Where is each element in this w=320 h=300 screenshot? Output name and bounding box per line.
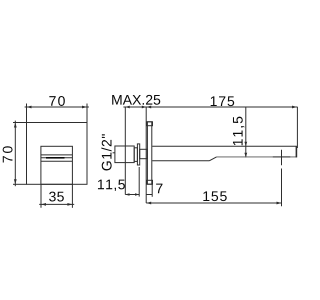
label MAX.25 — [112, 95, 160, 105]
dim 11,5 bottom washer extension — [138, 167, 140, 197]
label 155 — [203, 191, 226, 201]
aerator extension line — [281, 169, 283, 207]
dim 35 arrows — [41, 203, 72, 206]
dim 11,5 bottom dimension line — [125, 194, 139, 196]
dim 155 dimension line — [146, 202, 281, 204]
spout tube bottom step diagonal — [210, 157, 217, 161]
dim 70 top arrows — [27, 106, 88, 109]
label 7 — [156, 184, 162, 194]
front spout body — [41, 146, 73, 184]
dim 11,5 right arrows — [244, 142, 247, 158]
spout tip face — [295, 146, 297, 157]
label 11,5 right — [233, 117, 244, 146]
dim 70 left arrows — [14, 123, 17, 185]
nut collar — [134, 148, 137, 162]
spout slot dark opening — [46, 157, 65, 159]
flange top cap — [147, 122, 153, 126]
spout tube bottom line near wall — [152, 160, 209, 162]
flange bar — [147, 122, 151, 184]
dim 35 extension lines — [40, 184, 42, 208]
spout slot middle line — [41, 157, 72, 159]
label 175 — [211, 96, 235, 106]
spout slot top line — [41, 154, 72, 156]
aerator centerline cross vertical — [281, 150, 283, 166]
backnut washer — [137, 144, 139, 165]
dim 11,5 right dimension line — [245, 107, 247, 157]
dim 155 arrows — [146, 202, 281, 205]
G1/2 leader stub — [113, 152, 115, 154]
dim 175 right extension line — [296, 107, 298, 148]
dim 11,5 bottom arrows — [125, 193, 139, 196]
union nut — [115, 146, 134, 163]
spout tube top line — [152, 145, 297, 147]
label 11,5 bottom — [98, 180, 125, 191]
dim 70 left dimension line — [14, 121, 16, 187]
wall front line — [145, 107, 147, 203]
wall back line — [124, 107, 126, 195]
label G1/2" — [101, 134, 111, 170]
dim 35 dimension line — [39, 203, 74, 205]
dim 70 top dimension line — [25, 106, 89, 108]
label 70 left — [3, 146, 13, 162]
dim 7 dimension line — [146, 194, 152, 196]
label 70 top — [49, 96, 65, 106]
dim 70 left extension lines — [13, 122, 27, 124]
dim MAX25 arrows — [125, 106, 146, 109]
label 35 — [49, 192, 64, 202]
spout slot bottom line — [41, 160, 72, 162]
dim 70 top extension lines — [26, 104, 28, 123]
dim 7 flange extension — [151, 184, 153, 197]
front plate outline — [27, 123, 88, 185]
spout tube bottom line to tip — [217, 156, 297, 158]
dim 175 arrows — [146, 106, 297, 109]
aerator centerline cross horizontal — [273, 156, 291, 158]
top dimension line MAX25 and 175 — [123, 106, 297, 108]
pipe nipple — [140, 149, 148, 158]
flange bottom cap — [147, 180, 153, 184]
